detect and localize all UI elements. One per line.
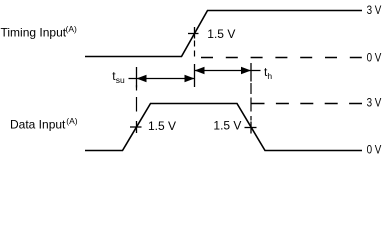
- cross mark at timing input 1.5V crossing: [188, 27, 199, 39]
- th right arrowhead: [241, 67, 251, 74]
- cross mark at data rising 1.5V crossing: [130, 121, 142, 133]
- svg-text:Timing Input: Timing Input: [1, 26, 67, 40]
- svg-text:(A): (A): [66, 24, 78, 34]
- th dimension line with leader: [195, 70, 261, 72]
- svg-text:Data Input: Data Input: [10, 118, 66, 132]
- svg-text:su: su: [116, 75, 125, 85]
- svg-text:0 V: 0 V: [367, 51, 382, 64]
- timing input waveform: low, rising edge, high: [85, 11, 362, 57]
- data input 3V dashed reference line: [252, 103, 363, 105]
- svg-text:0 V: 0 V: [367, 144, 382, 157]
- svg-text:1.5 V: 1.5 V: [213, 119, 241, 133]
- th label with subscript: [264, 65, 272, 81]
- svg-text:(A): (A): [66, 116, 78, 126]
- tsu label with subscript: [112, 69, 125, 85]
- vertical dashed projection from tick C down to data falling crossing: [250, 83, 252, 121]
- svg-text:h: h: [267, 71, 272, 81]
- label Timing Input (A): [1, 24, 78, 40]
- vertical dashed projection from timing 1.5V crossing down to 0V: [194, 41, 196, 59]
- svg-text:1.5 V: 1.5 V: [207, 27, 235, 41]
- th left arrowhead: [195, 67, 205, 74]
- tsu right arrowhead: [185, 75, 195, 82]
- tsu dimension line with leader: [129, 78, 195, 80]
- data input waveform: low, rising edge, high pulse, falling edge, low: [85, 104, 362, 151]
- cross mark at data falling 1.5V crossing: [245, 122, 257, 134]
- timing input 0V dashed reference line: [201, 57, 362, 59]
- tick A (setup start, data edge reference): [136, 67, 138, 88]
- svg-text:1.5 V: 1.5 V: [148, 119, 176, 133]
- tick B (timing edge reference, shared by tsu and th): [194, 64, 196, 87]
- svg-text:3 V: 3 V: [367, 4, 382, 17]
- vertical dashed projection from tick A down to data rising crossing: [136, 85, 138, 117]
- svg-text:3 V: 3 V: [367, 97, 382, 110]
- label Data Input (A): [10, 116, 78, 132]
- tsu left arrowhead: [137, 75, 147, 82]
- tick C (hold end, data falling edge reference): [250, 63, 252, 82]
